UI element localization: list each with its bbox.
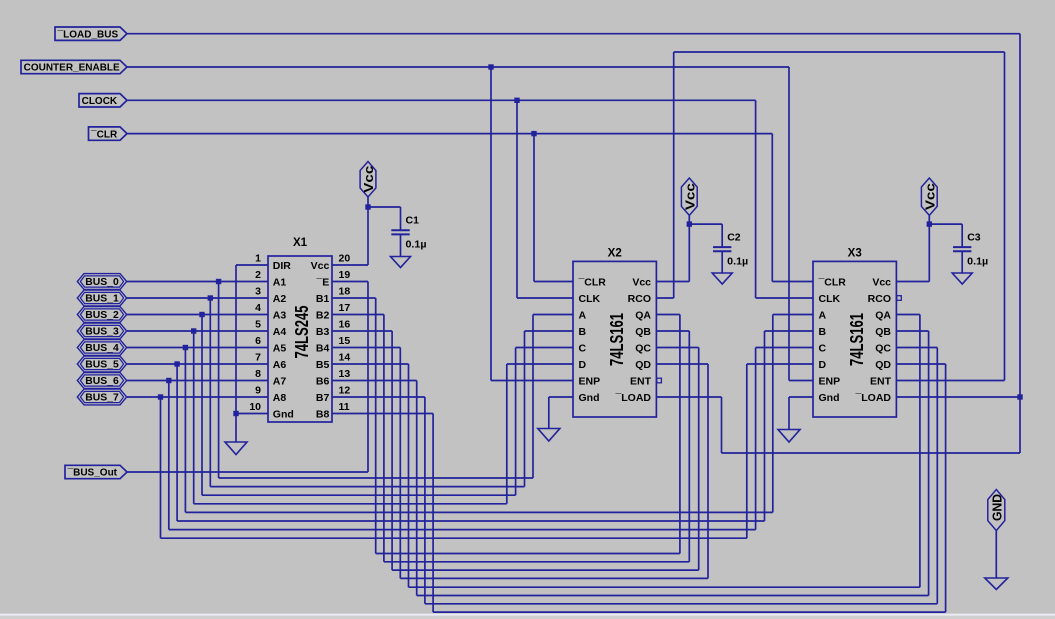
wire X1 B1 vertical xyxy=(375,298,377,554)
svg-text:0.1µ: 0.1µ xyxy=(967,256,988,268)
window bottom edge xyxy=(0,614,1055,619)
wire X2 ~LOAD vertical xyxy=(721,397,723,453)
ground X3 xyxy=(778,430,800,443)
net label BUS_2 xyxy=(77,307,126,323)
X1 right pin numbers 20-11 xyxy=(339,253,351,414)
wire X1 B3 vertical xyxy=(391,331,393,570)
wire X1 B7 bottom run xyxy=(425,603,937,605)
net label BUS_3 xyxy=(77,323,126,339)
wire X3 ~CLR vertical xyxy=(771,134,773,282)
wire X1 B8 vertical xyxy=(432,414,434,613)
node junction BUS_7 xyxy=(158,394,163,399)
refdes X2 xyxy=(608,248,622,260)
svg-text:17: 17 xyxy=(339,302,351,314)
no-connect X3 RCO xyxy=(897,296,902,301)
ground C2 xyxy=(712,273,732,284)
svg-text:QD: QD xyxy=(635,359,651,371)
IC X1 box xyxy=(268,256,332,422)
svg-text:Vcc: Vcc xyxy=(924,183,938,210)
svg-text:QC: QC xyxy=(635,343,651,355)
svg-text:A: A xyxy=(819,310,827,322)
wire X1 B2 vertical xyxy=(383,315,385,562)
svg-text:C: C xyxy=(579,343,587,355)
wire BUS_0 vertical drop xyxy=(218,282,220,479)
wire Vcc3 vertical xyxy=(928,224,930,281)
wire QA stub X2 xyxy=(656,314,680,316)
node junction COUNTER_ENABLE / X2 ENP xyxy=(488,64,493,69)
svg-text:15: 15 xyxy=(339,335,351,347)
node junction BUS_5 xyxy=(174,361,179,366)
svg-text:13: 13 xyxy=(339,368,351,380)
wire RCO-ENT top rail xyxy=(674,51,1005,53)
svg-text:Vcc: Vcc xyxy=(872,277,891,289)
svg-text:B7: B7 xyxy=(316,392,330,404)
node junction Vcc3 xyxy=(927,221,932,226)
X2 left pin names xyxy=(578,277,607,405)
wire QC riser X2 xyxy=(698,348,700,571)
svg-text:X2: X2 xyxy=(608,248,622,260)
net label BUS_5 xyxy=(77,356,126,372)
wire ~LOAD_BUS horizontal xyxy=(127,33,1021,35)
svg-text:BUS_0: BUS_0 xyxy=(85,277,119,288)
wire BUS_0 to X1 A1 xyxy=(127,281,268,283)
wire ~CLR horizontal xyxy=(127,133,773,135)
wire ~BUS_Out horizontal xyxy=(127,471,368,473)
wire BUS_4 to X1 A5 xyxy=(127,347,268,349)
wire X1 B5 stub xyxy=(332,363,409,365)
net label BUS_6 xyxy=(77,373,126,389)
wire C3 branch xyxy=(929,223,962,225)
wire BUS_5 to X1 A6 xyxy=(127,363,268,365)
value C3 0.1u xyxy=(967,256,988,268)
wire X1 B6 vertical xyxy=(416,381,418,596)
wire X1 B2 stub xyxy=(332,314,384,316)
wire BUS_2 bottom run xyxy=(202,494,516,496)
svg-text:A8: A8 xyxy=(273,392,287,404)
svg-text:QC: QC xyxy=(875,343,891,355)
svg-text:Vcc: Vcc xyxy=(311,260,330,272)
wire X1 B4 stub xyxy=(332,347,400,349)
no-connect X2 ENT xyxy=(657,378,662,383)
X1 right pin names xyxy=(311,260,330,421)
svg-text:12: 12 xyxy=(339,385,351,397)
svg-text:RCO: RCO xyxy=(868,293,891,305)
wire X1 ~E stub pin19 xyxy=(332,281,368,283)
wire QC stub X2 xyxy=(656,347,698,349)
svg-text:DIR: DIR xyxy=(273,260,292,272)
node junction BUS_6 xyxy=(166,378,171,383)
svg-text:6: 6 xyxy=(255,335,261,347)
svg-text:18: 18 xyxy=(339,286,351,298)
wire X2 ENP vertical xyxy=(490,67,492,381)
capacitor C3 xyxy=(953,224,971,273)
net label ~LOAD_BUS xyxy=(55,27,127,40)
value C1 0.1u xyxy=(406,239,427,251)
svg-text:ENT: ENT xyxy=(630,376,652,388)
node junction BUS_4 xyxy=(183,345,188,350)
wire X1 B1 stub xyxy=(332,297,376,299)
wire C1 branch xyxy=(368,206,401,208)
wire Vcc1 stem xyxy=(367,197,369,207)
svg-text:C: C xyxy=(819,343,827,355)
svg-text:QA: QA xyxy=(875,310,891,322)
label C1 xyxy=(406,215,420,227)
svg-text:QB: QB xyxy=(875,326,891,338)
svg-text:CLOCK: CLOCK xyxy=(82,96,118,107)
wire QB riser X3 xyxy=(928,331,930,596)
svg-text:20: 20 xyxy=(339,253,351,265)
svg-text:A2: A2 xyxy=(273,293,287,305)
svg-text:19: 19 xyxy=(339,269,351,281)
net label ~CLR xyxy=(89,127,128,140)
wire BUS_6 riser xyxy=(755,348,757,530)
wire X1 B6 stub xyxy=(332,380,417,382)
wire BUS_1 bottom run xyxy=(210,486,524,488)
wire X1 B1 bottom run xyxy=(376,553,680,555)
wire QD stub X2 xyxy=(656,363,708,365)
wire CLOCK horizontal xyxy=(127,99,756,101)
wire ~LOAD_BUS vertical right xyxy=(1019,34,1021,397)
wire X1 DIR stub xyxy=(236,264,268,266)
svg-text:COUNTER_ENABLE: COUNTER_ENABLE xyxy=(24,63,120,74)
node junction ~LOAD_BUS / X3 ~LOAD xyxy=(1017,394,1022,399)
wire X2 RCO vertical up xyxy=(673,52,675,298)
wire QA riser X3 xyxy=(919,315,921,588)
refdes X3 xyxy=(848,248,862,260)
svg-text:BUS_4: BUS_4 xyxy=(85,343,119,354)
wire BUS_7 vertical drop xyxy=(160,397,162,538)
net label BUS_4 xyxy=(77,340,126,356)
X3 left pin names xyxy=(818,277,847,405)
wire X1 B4 vertical xyxy=(399,348,401,579)
power symbol Vcc1 xyxy=(360,162,376,198)
wire BUS_1 riser xyxy=(524,331,526,487)
svg-text:1: 1 xyxy=(255,253,261,265)
ground X1 xyxy=(225,442,247,455)
wire C2 branch xyxy=(689,223,722,225)
label C2 xyxy=(727,232,741,244)
svg-text:A1: A1 xyxy=(273,277,287,289)
svg-text:A3: A3 xyxy=(273,310,287,322)
refdes X1 xyxy=(293,237,308,249)
wire X1 B6 bottom run xyxy=(417,595,929,597)
wire BUS_1 counter input stub xyxy=(525,330,574,332)
svg-text:¯E: ¯E xyxy=(315,277,329,289)
wire X1 B5 bottom run xyxy=(409,586,920,588)
svg-text:8: 8 xyxy=(255,368,261,380)
net label ~BUS_Out xyxy=(65,465,127,478)
wire BUS_6 bottom run xyxy=(169,529,756,531)
wire QB riser X2 xyxy=(688,331,690,562)
wire X1 DIR-Gnd vertical xyxy=(235,265,237,414)
svg-text:B5: B5 xyxy=(316,359,330,371)
svg-text:Vcc: Vcc xyxy=(362,166,376,193)
wire BUS_4 riser xyxy=(772,315,774,513)
X1 left pin names xyxy=(273,260,294,421)
svg-text:¯BUS_Out: ¯BUS_Out xyxy=(67,467,118,479)
node junction CLOCK / X2 CLK xyxy=(514,98,519,103)
svg-text:RCO: RCO xyxy=(628,293,651,305)
wire BUS_3 riser xyxy=(506,364,508,504)
svg-text:¯LOAD: ¯LOAD xyxy=(854,392,891,404)
node junction BUS_2 xyxy=(199,312,204,317)
wire X3 ENT vertical xyxy=(1004,52,1006,381)
node junction BUS_1 xyxy=(208,295,213,300)
wire Vcc3 stem xyxy=(928,215,930,224)
wire BUS_0 bottom run xyxy=(219,477,533,479)
svg-text:X3: X3 xyxy=(848,248,862,260)
wire BUS_3 to X1 A4 xyxy=(127,330,268,332)
wire QC riser X3 xyxy=(936,348,938,604)
wire BUS_6 vertical drop xyxy=(168,381,170,530)
wire X1 B8 stub xyxy=(332,413,433,415)
label C3 xyxy=(967,232,981,244)
svg-text:¯LOAD_BUS: ¯LOAD_BUS xyxy=(57,28,119,40)
power symbol Vcc3 xyxy=(921,178,937,215)
svg-text:QA: QA xyxy=(635,310,651,322)
svg-text:¯CLR: ¯CLR xyxy=(818,277,847,289)
value 74LS161 X2 xyxy=(607,313,627,366)
X1 left pin numbers 1-10 xyxy=(249,253,261,414)
wire BUS_5 riser xyxy=(764,331,766,521)
wire BUS_4 bottom run xyxy=(185,511,772,513)
IC X2 box xyxy=(573,261,656,417)
svg-text:B: B xyxy=(579,326,587,338)
svg-text:Gnd: Gnd xyxy=(579,392,600,404)
svg-text:B: B xyxy=(819,326,827,338)
X2 right pin names xyxy=(614,277,651,405)
wire BUS_3 bottom run xyxy=(194,503,507,505)
wire X1 B3 bottom run xyxy=(392,569,699,571)
wire X1 B2 bottom run xyxy=(384,561,689,563)
wire BUS_2 to X1 A3 xyxy=(127,314,268,316)
node junction BUS_0 xyxy=(216,279,221,284)
net label BUS_1 xyxy=(77,290,126,306)
wire BUS_5 counter input stub xyxy=(765,330,814,332)
svg-text:QB: QB xyxy=(635,326,651,338)
svg-text:10: 10 xyxy=(249,401,261,413)
wire ~LOAD_BUS down to return xyxy=(1019,397,1021,453)
wire X2 CLK vertical xyxy=(516,100,518,298)
wire BUS_7 to X1 A8 xyxy=(127,396,268,398)
wire X2 Gnd drop xyxy=(548,397,550,429)
wire BUS_7 bottom run xyxy=(161,537,747,539)
svg-text:11: 11 xyxy=(339,401,350,413)
svg-text:¯CLR: ¯CLR xyxy=(578,277,607,289)
svg-text:BUS_6: BUS_6 xyxy=(85,376,119,387)
wire BUS_2 counter input stub xyxy=(516,347,573,349)
node junction BUS_3 xyxy=(191,328,196,333)
svg-text:ENP: ENP xyxy=(819,376,841,388)
wire QA riser X2 xyxy=(679,315,681,554)
wire X2 RCO stub xyxy=(656,297,673,299)
wire X1 B7 vertical xyxy=(424,397,426,604)
net label COUNTER_ENABLE xyxy=(21,60,127,73)
wire QB stub X3 xyxy=(897,330,929,332)
ground X2 xyxy=(538,429,560,442)
svg-text:14: 14 xyxy=(339,352,351,364)
wire QD riser X3 xyxy=(945,364,947,612)
net label BUS_7 xyxy=(77,389,126,405)
wire X3 ENT stub xyxy=(897,380,1005,382)
wire GND stem xyxy=(995,531,997,578)
node junction X1 Gnd xyxy=(233,411,238,416)
wire BUS_0 counter input stub xyxy=(533,314,573,316)
wire QD riser X2 xyxy=(707,364,709,578)
svg-text:A7: A7 xyxy=(273,376,287,388)
svg-text:Vcc: Vcc xyxy=(684,183,698,210)
wire X1 B4 bottom run xyxy=(400,577,708,579)
wire X2 Vcc stub xyxy=(656,281,689,283)
node junction ~CLR / X2 ~CLR xyxy=(531,131,536,136)
svg-text:BUS_2: BUS_2 xyxy=(85,310,119,321)
svg-text:B6: B6 xyxy=(316,376,330,388)
wire BUS_2 vertical drop xyxy=(201,315,203,496)
ground GND symbol xyxy=(985,578,1008,590)
wire X1 B5 vertical xyxy=(408,364,410,587)
svg-text:BUS_7: BUS_7 xyxy=(85,393,119,404)
svg-text:7: 7 xyxy=(255,352,261,364)
X3 right pin names xyxy=(854,277,891,405)
wire Vcc2 stem xyxy=(688,215,690,224)
net label CLOCK xyxy=(79,94,127,107)
wire BUS_3 counter input stub xyxy=(507,363,573,365)
svg-text:CLK: CLK xyxy=(819,293,841,305)
wire QA stub X3 xyxy=(897,314,920,316)
wire X2 ~CLR stub xyxy=(534,281,573,283)
svg-text:3: 3 xyxy=(255,286,261,298)
value 74LS161 X3 xyxy=(847,313,867,366)
wire BUS_0 riser xyxy=(532,315,534,479)
wire BUS_7 counter input stub xyxy=(747,363,813,365)
wire QC stub X3 xyxy=(897,347,938,349)
svg-text:Gnd: Gnd xyxy=(273,409,294,421)
svg-text:QD: QD xyxy=(875,359,891,371)
svg-text:2: 2 xyxy=(255,269,261,281)
value 74LS245 xyxy=(292,306,312,359)
svg-text:ENT: ENT xyxy=(870,376,892,388)
wire X1 Gnd stub xyxy=(236,413,268,415)
wire X1 Vcc stub pin20 xyxy=(332,264,368,266)
wire X1 B8 bottom run xyxy=(433,611,946,613)
wire BUS_5 vertical drop xyxy=(176,364,178,521)
svg-text:D: D xyxy=(819,359,827,371)
net label BUS_0 xyxy=(77,274,126,290)
svg-text:0.1µ: 0.1µ xyxy=(727,256,748,268)
wire BUS_5 bottom run xyxy=(177,520,764,522)
svg-text:A4: A4 xyxy=(273,326,287,338)
wire BUS_1 vertical drop xyxy=(209,298,211,487)
wire X1 Gnd drop xyxy=(235,414,237,443)
wire X3 ~LOAD stub xyxy=(897,396,1021,398)
svg-text:4: 4 xyxy=(255,302,261,314)
wire BUS_4 vertical drop xyxy=(184,348,186,513)
power symbol Vcc2 xyxy=(681,178,697,215)
svg-text:74LS245: 74LS245 xyxy=(292,306,312,359)
wire X1 Vcc vertical xyxy=(367,207,369,265)
wire BUS_3 vertical drop xyxy=(193,331,195,504)
svg-text:¯CLR: ¯CLR xyxy=(90,128,118,140)
svg-text:BUS_3: BUS_3 xyxy=(85,327,119,338)
wire X3 Gnd drop xyxy=(788,397,790,430)
power symbol GND xyxy=(988,490,1005,531)
svg-text:A: A xyxy=(579,310,587,322)
svg-text:¯LOAD: ¯LOAD xyxy=(614,392,651,404)
wire BUS_2 riser xyxy=(515,348,517,496)
node junction Vcc2 xyxy=(687,221,692,226)
wire X3 ~CLR stub xyxy=(772,281,813,283)
wire BUS_7 riser xyxy=(746,364,748,538)
svg-text:B8: B8 xyxy=(316,409,330,421)
wire X3 ENP stub xyxy=(789,380,813,382)
svg-text:X1: X1 xyxy=(293,237,308,249)
wire X3 CLK stub xyxy=(756,297,813,299)
value C2 0.1u xyxy=(727,256,748,268)
wire X2 Gnd stub xyxy=(549,396,573,398)
wire BUS_4 counter input stub xyxy=(773,314,813,316)
svg-text:0.1µ: 0.1µ xyxy=(406,239,427,251)
svg-text:9: 9 xyxy=(255,385,261,397)
svg-text:GND: GND xyxy=(991,494,1005,521)
IC X3 box xyxy=(813,261,896,417)
wire BUS_1 to X1 A2 xyxy=(127,297,268,299)
wire X2 ~LOAD stub xyxy=(656,396,721,398)
wire X1 B3 stub xyxy=(332,330,392,332)
svg-text:CLK: CLK xyxy=(579,293,601,305)
wire ~LOAD return horizontal xyxy=(722,452,1021,454)
svg-text:D: D xyxy=(579,359,587,371)
svg-text:C2: C2 xyxy=(727,232,741,244)
ground C3 xyxy=(952,273,972,284)
svg-text:Gnd: Gnd xyxy=(819,392,840,404)
svg-text:A6: A6 xyxy=(273,359,287,371)
svg-text:B1: B1 xyxy=(316,293,330,305)
wire X3 Gnd stub xyxy=(789,396,813,398)
svg-text:C1: C1 xyxy=(406,215,420,227)
svg-text:BUS_1: BUS_1 xyxy=(85,294,119,305)
svg-text:A5: A5 xyxy=(273,343,287,355)
svg-text:ENP: ENP xyxy=(579,376,601,388)
wire BUS_6 counter input stub xyxy=(756,347,813,349)
node junction Vcc1 xyxy=(365,204,370,209)
svg-text:74LS161: 74LS161 xyxy=(847,313,867,366)
svg-text:B2: B2 xyxy=(316,310,330,322)
capacitor C2 xyxy=(713,224,731,273)
wire X2 ~CLR vertical xyxy=(533,134,535,282)
wire X2 ENP stub xyxy=(491,380,573,382)
wire X3 CLK vertical xyxy=(755,100,757,298)
svg-text:C3: C3 xyxy=(967,232,981,244)
wire QD stub X3 xyxy=(897,363,946,365)
wire QB stub X2 xyxy=(656,330,689,332)
svg-text:5: 5 xyxy=(255,319,261,331)
ground C1 xyxy=(391,257,411,268)
wire X3 ENP vertical xyxy=(788,67,790,381)
svg-text:B4: B4 xyxy=(316,343,330,355)
wire X1 ~E vertical xyxy=(367,282,369,473)
svg-text:BUS_5: BUS_5 xyxy=(85,360,119,371)
wire Vcc2 vertical xyxy=(688,224,690,281)
capacitor C1 xyxy=(391,207,409,257)
svg-text:16: 16 xyxy=(339,319,351,331)
svg-text:B3: B3 xyxy=(316,326,330,338)
svg-text:Vcc: Vcc xyxy=(632,277,651,289)
wire X3 Vcc stub xyxy=(897,281,930,283)
svg-text:74LS161: 74LS161 xyxy=(607,313,627,366)
wire X1 B7 stub xyxy=(332,396,425,398)
wire BUS_6 to X1 A7 xyxy=(127,380,268,382)
wire COUNTER_ENABLE horizontal xyxy=(127,66,790,68)
